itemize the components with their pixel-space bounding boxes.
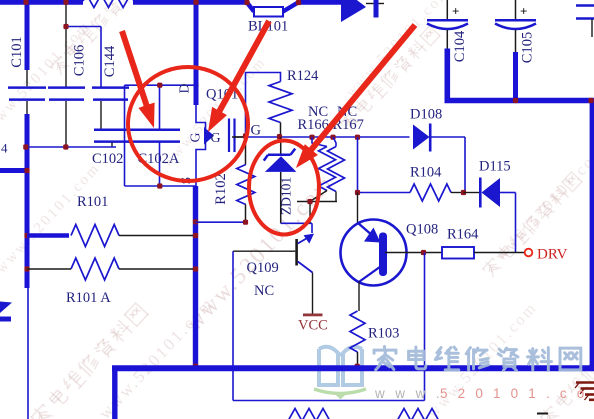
label BL101 — [248, 19, 288, 35]
label R103 — [368, 326, 399, 342]
node Q108 base junction — [421, 250, 426, 255]
svg-text:+: + — [520, 4, 527, 19]
wire Q108 base — [385, 252, 442, 254]
node C105 bus junction — [513, 98, 518, 103]
diode ZD101 — [264, 137, 297, 223]
label Q101 pin D — [177, 83, 192, 93]
label C102 — [92, 151, 123, 167]
label pin 4 — [1, 141, 8, 156]
wire Q101 drain — [194, 0, 199, 105]
label C106 — [71, 45, 87, 76]
label Q101 pin S — [179, 177, 194, 185]
label Q101 pin G — [211, 131, 221, 146]
svg-text:NC: NC — [254, 283, 274, 299]
label R167 — [333, 117, 364, 133]
capacitor C144 — [92, 88, 129, 129]
node left-column junctions — [24, 168, 29, 272]
wire ZD101 to Q109 collector — [281, 223, 312, 233]
capacitor C104 — [427, 0, 468, 49]
svg-text:D: D — [177, 83, 192, 93]
transistor Q109 — [295, 234, 314, 314]
wire Q101 source / main rail — [193, 186, 198, 366]
resistor R103 — [350, 311, 365, 366]
label Q109 — [247, 260, 279, 276]
node R166/167 bottom — [307, 199, 312, 204]
label R101 — [77, 194, 108, 210]
wire top bus mid — [133, 0, 248, 5]
label ZD101 — [279, 177, 294, 215]
svg-text:R101 A: R101 A — [66, 290, 111, 306]
annotation arrow to ZD101 — [310, 25, 415, 151]
capacitor C105 — [495, 0, 536, 101]
wire R102 bottom — [196, 221, 246, 223]
wire Q109 base loop — [233, 251, 425, 400]
annotation arrow to C102A — [122, 31, 147, 107]
resistor R124 — [269, 82, 292, 138]
diode D108 — [413, 124, 465, 193]
node R102 bottom — [243, 220, 248, 225]
label Q108 — [406, 222, 438, 238]
resistor inline at top edge (clipped) — [83, 0, 134, 8]
wire branch to C144 — [66, 27, 101, 88]
svg-text:Q109: Q109 — [247, 260, 279, 276]
svg-text:www.520101.com: www.520101.com — [343, 0, 453, 101]
label C104 — [452, 30, 468, 62]
resistor at bottom edge right (clipped) — [397, 409, 439, 419]
annotation arrow to Q101 gate — [219, 21, 269, 113]
transistor Q101 — [196, 105, 246, 186]
label C101 — [9, 36, 25, 67]
logo text — [374, 347, 581, 371]
label C105 — [519, 32, 535, 63]
wire left input stub — [0, 168, 28, 173]
svg-text:4: 4 — [1, 141, 8, 156]
annotation ellipse around ZD101 — [249, 141, 319, 235]
label C144 — [102, 45, 118, 77]
node C144 branch junction — [63, 24, 68, 29]
capacitor at top right corner (clipped) — [576, 6, 594, 38]
label R166 — [298, 117, 329, 133]
svg-text:www.520101.com: www.520101.com — [181, 170, 338, 336]
svg-text:DRV: DRV — [537, 247, 568, 263]
wire Q108 collector — [357, 193, 359, 224]
capacitor C101 — [8, 0, 46, 114]
node cap-bottom junctions — [23, 144, 68, 149]
logo book icon — [314, 347, 366, 397]
svg-text:C105: C105 — [519, 32, 535, 63]
svg-text:R104: R104 — [410, 165, 442, 181]
svg-text:C144: C144 — [102, 45, 118, 77]
capacitor C102A — [128, 85, 180, 186]
diode at top edge (clipped) — [341, 0, 384, 22]
wire stub bottom right — [537, 413, 548, 415]
terminal DRV — [525, 249, 533, 257]
svg-text:G: G — [251, 123, 262, 139]
label D115 — [479, 159, 511, 175]
svg-text:R101: R101 — [77, 194, 108, 210]
wire R166 R167 bottoms — [297, 202, 337, 224]
node gate-line junctions — [243, 133, 360, 139]
resistor R101A — [27, 258, 193, 280]
resistor R164 — [442, 247, 525, 259]
svg-text:R102: R102 — [213, 173, 229, 204]
svg-text:C101: C101 — [9, 36, 25, 67]
svg-text:ZD101: ZD101 — [279, 177, 294, 215]
fuse BL101 — [247, 3, 298, 17]
label NC NC — [308, 104, 357, 120]
wire snubber loop left — [124, 85, 126, 186]
node C102A junctions — [157, 83, 198, 189]
svg-text:+: + — [452, 4, 459, 19]
label R102 — [213, 173, 229, 204]
svg-text:C104: C104 — [452, 30, 468, 62]
diode at left edge (clipped) — [0, 302, 12, 322]
svg-text:R103: R103 — [368, 326, 399, 342]
wire gate branch down — [357, 137, 359, 193]
label Q101 — [206, 87, 238, 103]
wire top bus right of BL101 — [297, 0, 342, 5]
transistor Q108 — [341, 220, 407, 312]
capacitor C106 — [48, 2, 85, 147]
wire top AC bus left — [0, 0, 83, 5]
diode D115 — [464, 178, 516, 253]
svg-text:VCC: VCC — [298, 318, 328, 334]
resistor R104 — [358, 184, 464, 201]
wire cap-bottom rail — [26, 146, 117, 148]
label Q109 NC — [254, 283, 274, 299]
svg-text:Q108: Q108 — [406, 222, 438, 238]
label R101A — [66, 290, 111, 306]
label node G — [251, 123, 262, 139]
ground symbol right edge — [575, 383, 594, 401]
node R104 ends — [355, 190, 466, 195]
label R104 — [410, 165, 442, 181]
label C102A — [138, 151, 180, 167]
capacitor C102 — [94, 130, 131, 147]
resistor R167 — [328, 137, 345, 202]
annotation ellipse around Q101/C102A — [128, 67, 248, 181]
label D108 — [410, 107, 442, 123]
svg-text:w w w .: w w w . — [374, 386, 443, 401]
svg-text:C102: C102 — [92, 151, 123, 167]
wire C104 to bus — [447, 49, 594, 101]
svg-text:C106: C106 — [71, 45, 87, 76]
node top bus junctions — [23, 0, 301, 5]
resistor R166 — [310, 137, 336, 202]
node right rail junction — [588, 98, 593, 103]
label R124 — [287, 68, 319, 84]
wire right edge rail — [590, 101, 594, 369]
wire gate line G — [232, 136, 410, 138]
svg-text:G: G — [211, 131, 221, 146]
resistor R101 — [27, 225, 193, 247]
label DRV — [537, 247, 568, 263]
svg-text:R164: R164 — [447, 227, 479, 243]
node Q101 drain top — [193, 0, 198, 5]
wire R124 top loop — [246, 73, 281, 138]
svg-text:G: G — [188, 132, 203, 142]
wire snubber loop top — [125, 84, 196, 86]
node R103 bottom — [355, 364, 360, 369]
wire snubber loop bottom — [125, 185, 196, 187]
label R164 — [447, 227, 479, 243]
node main rail junctions — [193, 219, 198, 369]
svg-text:D115: D115 — [479, 159, 511, 175]
wire bottom ground bus — [112, 368, 594, 419]
svg-text:R124: R124 — [287, 68, 319, 84]
svg-text:5 2 0 1 0 1 . c o m: 5 2 0 1 0 1 . c o m — [440, 386, 594, 401]
wire C101 lower lead — [27, 114, 28, 419]
svg-text:www.520101.com: www.520101.com — [0, 160, 104, 277]
resistor R102 — [237, 137, 255, 223]
power VCC — [298, 314, 328, 334]
resistor at bottom edge left (clipped) — [288, 409, 330, 419]
svg-text:D108: D108 — [410, 107, 442, 123]
label Q101 pin G rotated — [188, 132, 203, 142]
